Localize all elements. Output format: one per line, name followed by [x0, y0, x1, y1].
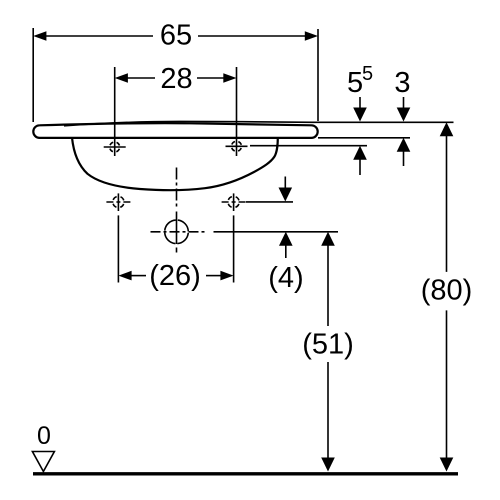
dimension 28: left extension line: [114, 67, 116, 156]
floor ground line: [33, 472, 458, 475]
drain hole horizontal centerline: [151, 231, 206, 233]
dimension 26: left arrowhead (pointing left): [118, 271, 131, 281]
dimension 65: dimension line left segment: [45, 35, 153, 37]
dimension 26: right extension line: [233, 215, 235, 282]
dimension 65: left extension line: [32, 28, 34, 122]
lower left faucet hole crosshair: [113, 196, 124, 207]
dimension 51: vertical line lower part with down arrow: [327, 362, 329, 459]
dimension 4: lower arrow (up): [285, 244, 287, 258]
upper right faucet hole crosshair: [232, 141, 242, 151]
dimension 28: dimension line right segment: [197, 77, 225, 79]
dimension 28: left arrowhead: [115, 73, 128, 83]
reference line for dim 3 (slab bottom extended): [318, 137, 410, 139]
basin vertical centerline through drain: [176, 212, 178, 245]
reference line through lower faucet holes (for dim 4): [246, 201, 293, 203]
svg-text:(4): (4): [268, 262, 303, 294]
dimension 4: upper arrow (down): [284, 177, 286, 190]
dimension 5.5: lower arrow (up): [359, 158, 361, 175]
dimension 80: up arrow at top: [440, 122, 454, 136]
svg-text:3: 3: [394, 67, 410, 99]
floor datum triangle: [32, 452, 54, 472]
dimension 80: vertical line upper part: [446, 135, 448, 272]
dimension 65: right extension line: [317, 29, 319, 121]
dimension 3: upper arrow (down): [403, 97, 405, 110]
dimension 28: right arrowhead: [223, 73, 236, 83]
lower right faucet hole crosshair: [228, 196, 239, 207]
dimension 3: lower arrow (up): [403, 150, 405, 166]
svg-text:(26): (26): [149, 260, 201, 292]
dimension 28: dimension line left segment: [126, 77, 155, 79]
dimension 5.5: upper arrow (down): [359, 97, 361, 110]
svg-text:5: 5: [362, 63, 373, 85]
dimension 26: dimension line right segment: [206, 275, 222, 277]
svg-text:(80): (80): [421, 275, 473, 307]
svg-text:28: 28: [160, 63, 192, 95]
dimension 51: vertical line upper part with up arrow: [321, 232, 335, 246]
svg-text:0: 0: [37, 422, 51, 450]
reference line for dim 5.5 (apron lower edge): [250, 145, 367, 147]
drain hole circle: [165, 220, 189, 244]
dimension 65: right arrowhead: [305, 31, 318, 41]
washbasin back rim crown line + top reference line: [64, 121, 454, 125]
dimension 26: right arrowhead (pointing right): [220, 271, 233, 281]
dimension 65: left arrowhead: [33, 31, 46, 41]
washbasin ceramic deck (front slab outline): [33, 123, 317, 138]
dimension 65: dimension line right segment: [198, 35, 306, 37]
svg-text:(51): (51): [302, 329, 354, 361]
basin vertical centerline lower dash: [176, 248, 178, 253]
dimension 80: vertical line lower part with down arrow: [446, 310, 448, 459]
dimension 26: dimension line left segment: [130, 275, 146, 277]
svg-text:65: 65: [160, 19, 192, 51]
dimension 28: right extension line: [236, 67, 238, 156]
dimension 26: left extension line: [117, 215, 119, 282]
reference line through drain center (for dims 4 and 51): [214, 231, 339, 233]
washbasin bowl outline: [72, 138, 278, 191]
upper left faucet hole crosshair: [110, 142, 120, 152]
svg-text:5: 5: [347, 67, 363, 99]
basin vertical centerline upper part: [176, 168, 178, 210]
